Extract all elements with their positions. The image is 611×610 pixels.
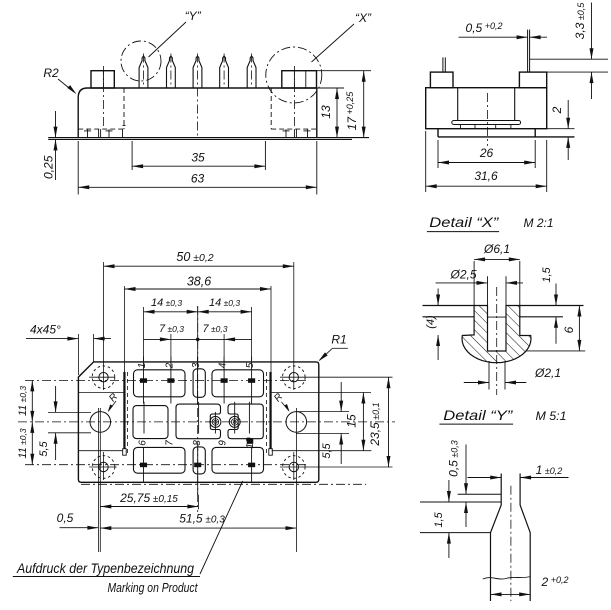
svg-text:35: 35: [191, 151, 205, 165]
compartment middle center with notch: [176, 404, 221, 439]
svg-text:0,25: 0,25: [42, 155, 56, 179]
dim 6: [527, 350, 586, 352]
marking line: [81, 483, 366, 485]
hidden pegs right: [285, 129, 287, 138]
svg-text:M 5:1: M 5:1: [536, 409, 567, 423]
compartment middle left: [133, 406, 168, 439]
side slot bar left: [123, 372, 125, 449]
svg-text:5: 5: [245, 362, 256, 368]
dim 2: [567, 100, 569, 129]
svg-text:R2: R2: [43, 66, 59, 80]
detail Y surface lines: [458, 493, 502, 495]
dim 7 left: [144, 338, 252, 340]
dim 0,5+-0,3: [465, 445, 467, 495]
row line C: [25, 464, 308, 466]
label Y leader: [149, 22, 187, 57]
pin shoulder line: [530, 58, 608, 60]
dim 5,5 right: [340, 382, 342, 412]
svg-text:R1: R1: [331, 333, 346, 347]
label R2 leader: [58, 79, 74, 92]
svg-text:2: 2: [164, 362, 175, 369]
svg-text:3,3 ±0,5: 3,3 ±0,5: [573, 2, 587, 40]
svg-text:38,6: 38,6: [187, 275, 211, 289]
svg-text:50 ±0,2: 50 ±0,2: [176, 250, 213, 264]
svg-text:4x45°: 4x45°: [30, 322, 61, 336]
svg-text:14 ±0,3: 14 ±0,3: [209, 297, 240, 309]
baseplate side view: [48, 137, 369, 139]
dim 31,6: [425, 131, 427, 192]
pin marks top row: [140, 378, 147, 382]
dim 5,5 left: [55, 386, 57, 412]
cavity walls: [457, 88, 459, 121]
dim 0,25: [55, 111, 57, 138]
svg-text:M 2:1: M 2:1: [523, 216, 553, 230]
pin marks bottom row: [140, 463, 147, 467]
svg-text:1 ±0,2: 1 ±0,2: [536, 463, 563, 477]
dim 11 lower: [31, 422, 33, 465]
svg-text:5,5: 5,5: [38, 440, 50, 456]
end view body: [426, 88, 547, 129]
svg-text:11 ±0,3: 11 ±0,3: [17, 386, 29, 417]
detail X centerline: [496, 287, 498, 395]
dim 25,75: [100, 506, 198, 508]
svg-text:4: 4: [218, 362, 229, 368]
hidden cavity lines: [123, 88, 125, 129]
pin lines top row: [143, 357, 145, 404]
svg-text:1: 1: [137, 363, 148, 369]
side view body outline: [78, 88, 317, 138]
datum lines bottom left: [97, 408, 99, 552]
detail Y centerline: [510, 486, 512, 601]
corner holes: [92, 366, 115, 389]
dim 35: [131, 141, 133, 170]
dim 14 left: [143, 307, 145, 361]
dim 1,5 detail X: [555, 284, 557, 306]
end view right pin: [527, 30, 529, 73]
svg-text:9: 9: [218, 440, 229, 446]
side holes: [90, 412, 111, 433]
svg-text:Detail “Y”: Detail “Y”: [443, 407, 514, 423]
row line A: [25, 379, 308, 381]
dim 15: [362, 393, 364, 451]
svg-text:5,5: 5,5: [321, 442, 333, 458]
svg-text:23,5 ±0,1: 23,5 ±0,1: [368, 402, 382, 446]
label X leader: [312, 24, 355, 62]
vertical centerline: [197, 306, 199, 512]
pin lines middle row: [143, 402, 145, 434]
dim 63: [77, 141, 79, 195]
block centerlines: [102, 66, 104, 128]
dim 4x45: [77, 334, 79, 375]
side hole tangent lines left: [48, 411, 91, 413]
end view baseplate: [437, 129, 439, 137]
dim 26: [437, 140, 439, 168]
dim dia 2,1: [464, 382, 489, 384]
dim 51,5: [100, 527, 296, 529]
detail X boss edges extension: [473, 261, 475, 306]
side slot bar right: [270, 372, 272, 449]
svg-text:Marking on Product: Marking on Product: [108, 581, 198, 595]
svg-text:6: 6: [138, 440, 149, 446]
ledge lines S: [79, 450, 123, 452]
detail circle X: [266, 47, 322, 103]
compartment middle right with notch: [228, 404, 263, 439]
horizontal centerline: [18, 421, 395, 423]
detail circle Y: [121, 41, 161, 81]
svg-text:0,5 ±0,3: 0,5 ±0,3: [447, 440, 461, 477]
svg-text:25,75 ±0,15: 25,75 ±0,15: [119, 491, 178, 505]
dim 23,5: [388, 377, 390, 467]
substrate: [452, 121, 521, 125]
block top extension: [547, 71, 608, 73]
svg-text:15: 15: [345, 414, 359, 428]
svg-text:63: 63: [191, 172, 205, 186]
svg-text:3: 3: [191, 362, 202, 368]
svg-text:1,5: 1,5: [541, 266, 553, 282]
svg-text:11 ±0,3: 11 ±0,3: [17, 428, 29, 459]
svg-text:Ø6,1: Ø6,1: [483, 242, 510, 256]
svg-text:14 ±0,3: 14 ±0,3: [151, 297, 182, 309]
svg-text:2: 2: [550, 106, 564, 114]
end view left block: [430, 72, 453, 88]
detail X surfaces: [423, 305, 475, 307]
right terminal block: [282, 71, 317, 88]
detail Y break line: [483, 577, 530, 580]
svg-text:“X”: “X”: [355, 11, 372, 25]
svg-text:8: 8: [192, 440, 203, 446]
svg-text:1,5: 1,5: [433, 511, 445, 527]
dim (4): [437, 289, 439, 306]
svg-text:10: 10: [245, 437, 256, 449]
dim 0,5 bottom: [60, 527, 99, 529]
svg-text:31,6: 31,6: [474, 169, 498, 183]
dim 3,3: [591, 3, 593, 60]
dim 14 right: [198, 311, 252, 313]
dim 50: [104, 265, 294, 267]
corner hole centerlines vertical: [103, 262, 105, 390]
svg-text:Ø2,1: Ø2,1: [534, 366, 561, 380]
dim 38,6: [124, 286, 126, 372]
marking note leader: [200, 481, 243, 574]
detail Y pin: [491, 474, 502, 602]
svg-text:(4): (4): [425, 315, 437, 329]
left terminal block: [91, 71, 114, 88]
detail X hole: [487, 276, 489, 305]
dim 1,5 detail Y: [448, 480, 450, 502]
dim 11 upper: [31, 380, 33, 422]
top view outline: [78, 362, 318, 482]
dim 2+0,2: [491, 593, 531, 595]
end view centerline: [486, 93, 488, 146]
hole row line top: [89, 376, 115, 378]
dim 13: [317, 87, 344, 89]
svg-text:7 ±0,3: 7 ±0,3: [203, 323, 228, 335]
compartments top row: [134, 370, 186, 397]
dim dia 2,5: [436, 282, 488, 284]
pins side view: [139, 56, 148, 88]
hidden pegs left: [87, 129, 89, 138]
svg-text:7: 7: [164, 440, 175, 446]
dim dia 6,1: [474, 258, 520, 260]
compartments bottom row: [134, 447, 186, 473]
hole row line bottom: [89, 466, 117, 468]
svg-text:0,5: 0,5: [57, 511, 74, 525]
ledge lines Q: [78, 392, 124, 394]
pin lines bottom row: [143, 447, 145, 481]
svg-text:Ø2,5: Ø2,5: [449, 268, 476, 282]
svg-text:“Y”: “Y”: [185, 9, 202, 23]
svg-text:26: 26: [479, 146, 494, 160]
dim 17+0,25: [317, 70, 372, 72]
boss circles: [210, 416, 221, 427]
svg-text:6: 6: [562, 326, 576, 333]
svg-text:7 ±0,3: 7 ±0,3: [159, 323, 184, 335]
dim 1+-0,2: [468, 477, 502, 479]
dim 0,5+0,2: [459, 36, 528, 38]
side hole tangent lines right: [296, 411, 349, 413]
svg-text:51,5 ±0,3: 51,5 ±0,3: [179, 512, 225, 526]
end view right block: [519, 72, 546, 88]
svg-text:Detail “X”: Detail “X”: [429, 214, 500, 230]
end view left pin: [442, 57, 444, 72]
svg-text:Aufdruck der Typenbezeichnung: Aufdruck der Typenbezeichnung: [16, 561, 194, 576]
detail X part hatched section: [462, 306, 531, 363]
svg-text:13: 13: [319, 105, 333, 119]
